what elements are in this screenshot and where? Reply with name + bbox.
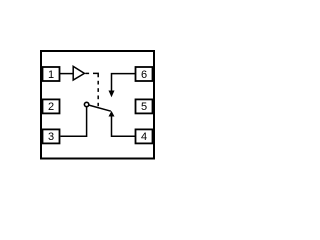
pin 3 [43, 129, 60, 143]
arrow down NC contact [109, 91, 115, 98]
buffer A1 [73, 66, 84, 80]
pin 4 [136, 129, 153, 143]
wire pin1 to buffer [60, 73, 74, 75]
svg-text:5: 5 [141, 101, 147, 113]
wire NO contact to pin4 [112, 116, 136, 136]
svg-text:6: 6 [141, 69, 147, 81]
pin 5 [136, 99, 153, 113]
pin 6 [136, 67, 153, 81]
wire pole to pin3 [61, 107, 87, 136]
svg-text:3: 3 [48, 131, 54, 143]
arrow up NO contact [109, 111, 115, 117]
svg-text:1: 1 [48, 69, 54, 81]
dashed control line [85, 73, 98, 106]
switch arm [89, 105, 111, 111]
pin 2 [43, 99, 60, 113]
svg-text:4: 4 [141, 131, 147, 143]
svg-text:2: 2 [48, 101, 54, 113]
wire pin6 to NC contact [112, 74, 136, 92]
package outline U1 [41, 51, 154, 159]
switch pole node [84, 102, 88, 106]
pin 1 [43, 67, 60, 81]
